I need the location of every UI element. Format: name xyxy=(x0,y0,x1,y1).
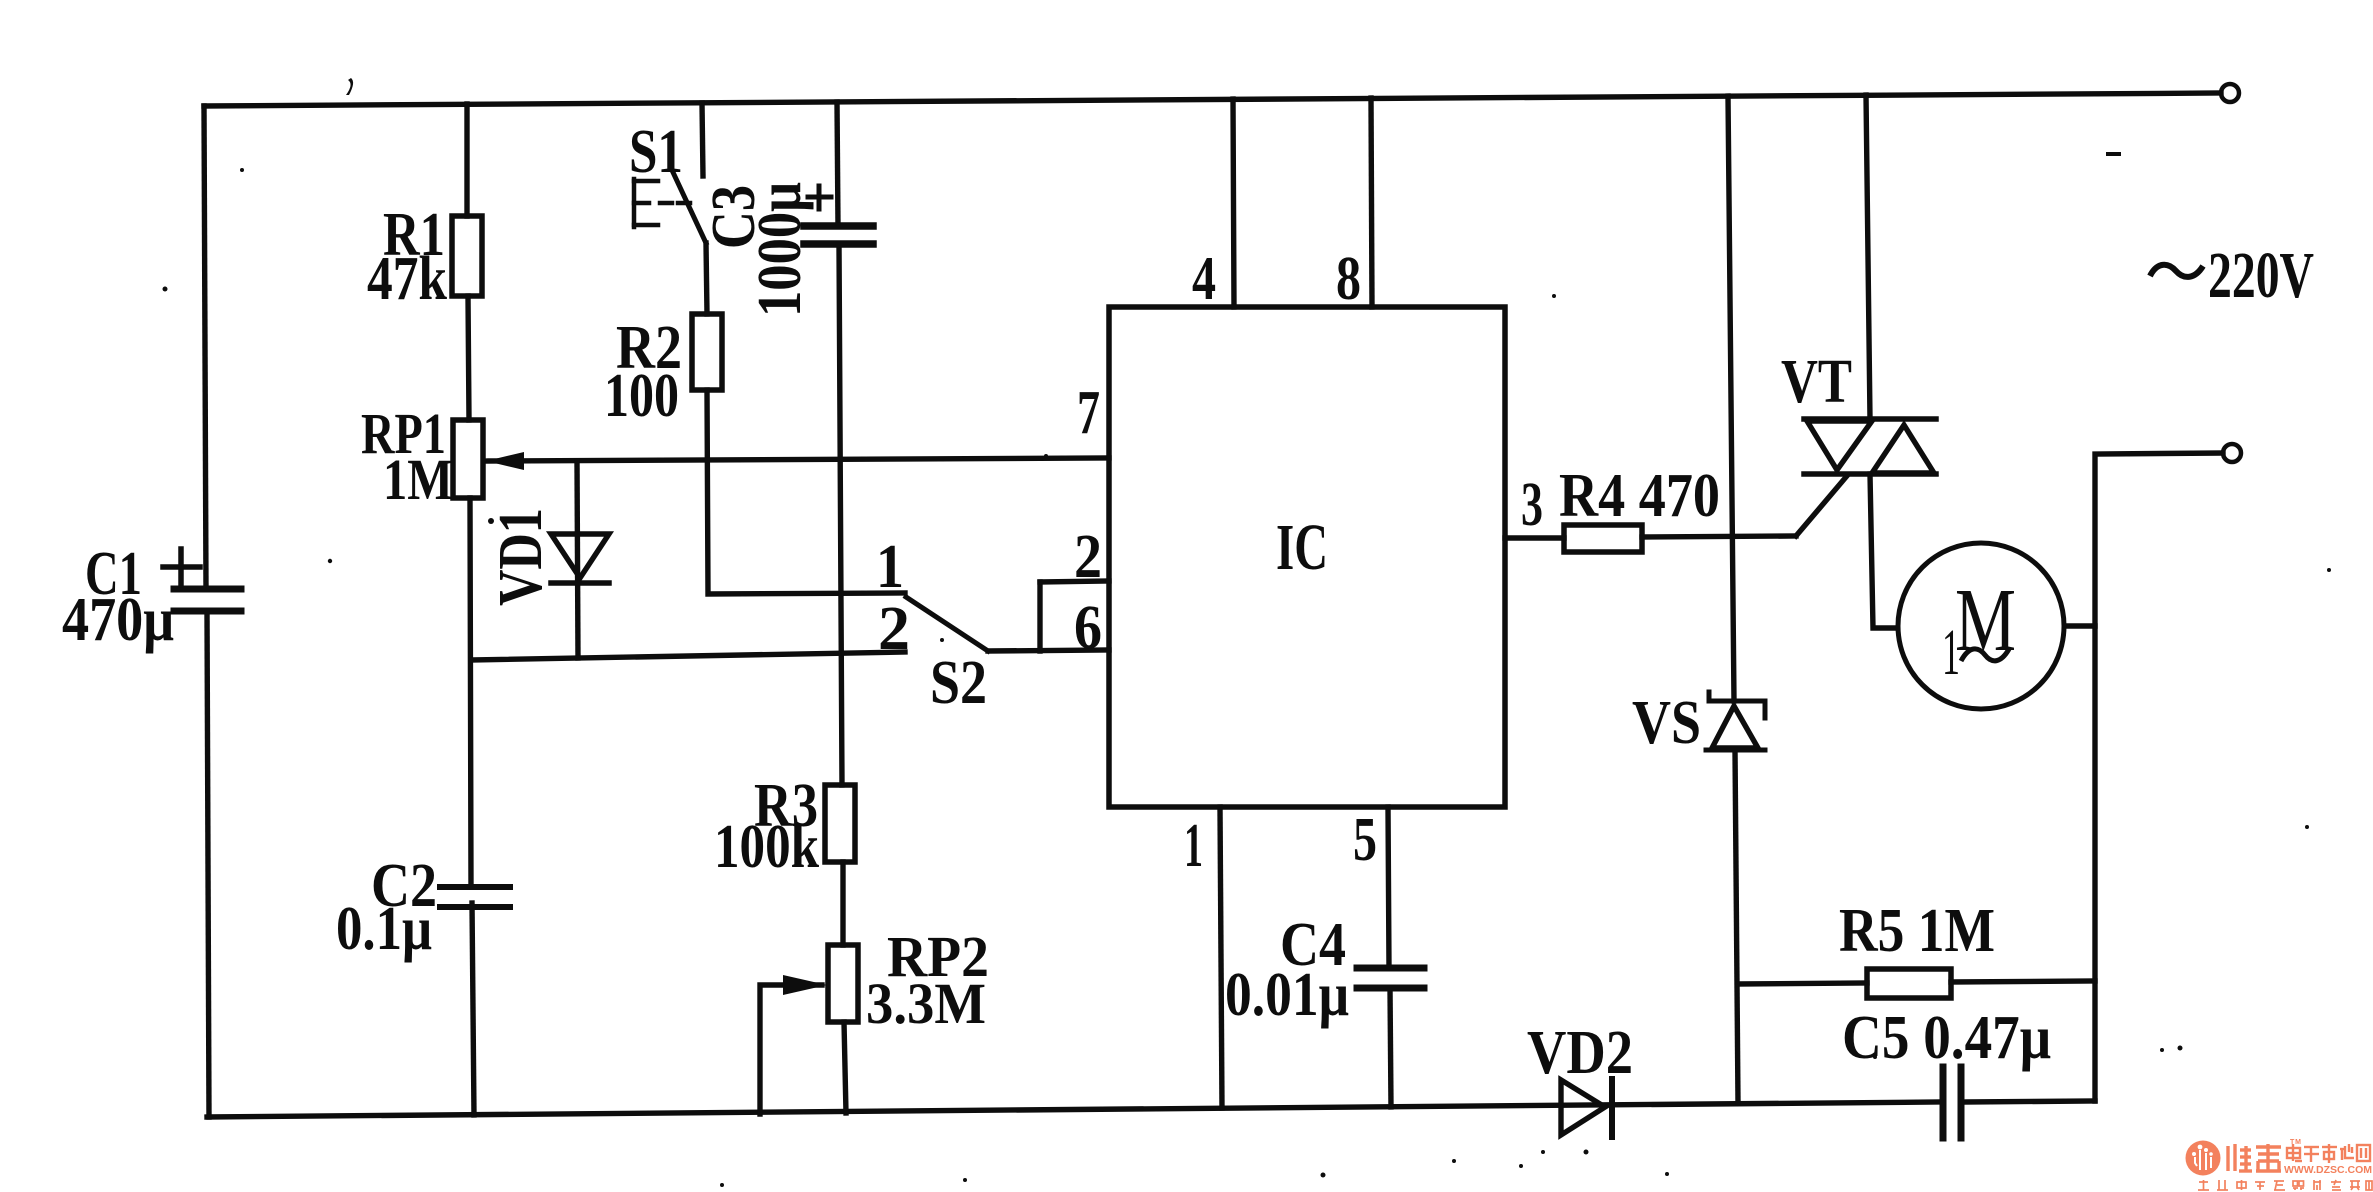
wire top rail xyxy=(204,93,2221,106)
resistor R5 xyxy=(1867,969,1951,998)
watermark logo circle xyxy=(2186,1141,2221,1176)
svg-text:4: 4 xyxy=(1192,245,1216,313)
wire pin5 to C4 xyxy=(1388,807,1389,968)
svg-text:6: 6 xyxy=(1074,594,1102,662)
wire VD1 branch xyxy=(577,461,578,658)
watermark chinese small 电子市场网 xyxy=(2287,1144,2370,1163)
svg-text:R4 470: R4 470 xyxy=(1559,462,1720,530)
wire C2 to bottom rail xyxy=(472,903,474,1115)
wire bottom rail left of C5 xyxy=(207,1102,1939,1117)
wire VS to bottom rail xyxy=(1735,750,1738,1102)
svg-text:7: 7 xyxy=(1077,379,1100,447)
svg-text:100k: 100k xyxy=(714,813,819,881)
op-amp U1 IC box xyxy=(1109,307,1505,807)
capacitor C4 xyxy=(1357,968,1424,988)
wire R5 right xyxy=(1951,981,2095,982)
svg-text:3: 3 xyxy=(1521,471,1543,539)
wire S1 stub from top rail xyxy=(702,103,703,176)
node AC terminal bottom xyxy=(2223,444,2241,462)
potentiometer RP1 xyxy=(453,420,483,498)
svg-text:S2: S2 xyxy=(930,649,987,717)
wire pin8 to top rail xyxy=(1371,98,1372,307)
wire pin7 from RP1 wiper to IC xyxy=(488,458,1109,461)
wire C4 to bottom rail xyxy=(1390,988,1391,1107)
svg-text:TM: TM xyxy=(2290,1139,2301,1146)
capacitor C3 plus sign xyxy=(808,186,831,209)
wire S1 to R2 xyxy=(706,243,707,314)
wire pin3 to R4 xyxy=(1505,535,1564,540)
wire vertical A top to R1 xyxy=(464,104,469,216)
watermark slogan row xyxy=(2198,1180,2372,1190)
node AC terminal top xyxy=(2221,84,2239,102)
node label 220V xyxy=(2150,265,2203,277)
wire C3 down to R3 xyxy=(839,244,842,785)
potentiometer RP1 wiper arrow xyxy=(486,452,524,470)
svg-text:3.3M: 3.3M xyxy=(866,971,986,1036)
potentiometer RP2 wiper arrow xyxy=(783,975,827,995)
svg-text:R5 1M: R5 1M xyxy=(1839,897,1995,965)
svg-text:VD2: VD2 xyxy=(1527,1019,1633,1087)
capacitor C2 xyxy=(440,887,510,907)
watermark chinese main 维库 xyxy=(2228,1144,2281,1171)
resistor R2 xyxy=(692,314,722,390)
switch S2 arm xyxy=(906,597,988,651)
svg-text:WWW.DZSC.COM: WWW.DZSC.COM xyxy=(2284,1165,2372,1176)
wire R4 to gate xyxy=(1642,536,1796,537)
diode VD1 xyxy=(551,534,609,578)
wire vertical C top to VS xyxy=(1728,96,1734,701)
potentiometer RP2 xyxy=(828,945,858,1022)
wire RP2 to bottom rail xyxy=(844,1022,846,1113)
diode VS xyxy=(1712,706,1758,748)
transistor VT triac xyxy=(1804,416,1936,422)
svg-text:1: 1 xyxy=(1942,616,1960,689)
wire motor right stub xyxy=(2065,623,2095,628)
svg-text:470μ: 470μ xyxy=(62,586,174,654)
wire RP2 wiper return xyxy=(760,985,822,1114)
svg-text:1: 1 xyxy=(876,533,904,601)
svg-text:220V: 220V xyxy=(2208,239,2314,312)
wire VT to motor xyxy=(1870,474,1897,628)
wire throw2 line xyxy=(472,652,905,660)
capacitor C1 plus sign xyxy=(163,549,200,585)
svg-text:C5 0.47μ: C5 0.47μ xyxy=(1842,1004,2051,1072)
svg-text:VD1: VD1 xyxy=(487,508,555,606)
wire R1 to RP1 xyxy=(468,296,469,420)
wire R3 to RP2 xyxy=(840,862,845,945)
svg-text:1M: 1M xyxy=(383,447,453,512)
capacitor C3 xyxy=(804,226,873,244)
svg-text:100: 100 xyxy=(604,362,679,430)
capacitor C1 xyxy=(174,589,241,611)
wire triac gate diagonal xyxy=(1796,477,1846,536)
switch S1 arm xyxy=(671,168,706,243)
diode VD2 xyxy=(1561,1080,1605,1135)
wire R2 down to throw1 corner xyxy=(707,390,905,594)
svg-text:2: 2 xyxy=(1074,523,1102,591)
wire pin1 to bottom rail xyxy=(1220,807,1222,1108)
svg-text:1000μ: 1000μ xyxy=(746,182,814,317)
svg-text:S1: S1 xyxy=(629,118,683,186)
wire AC terminal 2 lead xyxy=(2095,453,2223,1101)
capacitor C5 xyxy=(1943,1067,1961,1138)
wire pin2 hook vertical xyxy=(1037,582,1042,651)
svg-text:8: 8 xyxy=(1336,245,1361,313)
wire vertical B top to C3 xyxy=(837,102,838,226)
svg-text:VS: VS xyxy=(1632,689,1701,757)
wire RP1 to C2 xyxy=(470,498,471,886)
svg-text:1: 1 xyxy=(1184,812,1203,880)
wire left rail lower xyxy=(207,612,209,1117)
speckle marks xyxy=(346,78,353,95)
resistor R1 xyxy=(452,216,482,296)
wire S2 common to pin6 xyxy=(988,650,1109,651)
svg-text:IC: IC xyxy=(1276,511,1328,584)
svg-text:5: 5 xyxy=(1353,806,1377,874)
node label M tilde xyxy=(1961,649,2009,661)
wire pin2 stub xyxy=(1040,581,1109,582)
svg-text:2: 2 xyxy=(878,595,910,663)
wire pin4 to top rail xyxy=(1233,99,1234,307)
svg-text:0.01μ: 0.01μ xyxy=(1225,961,1349,1029)
svg-text:0.1μ: 0.1μ xyxy=(336,895,432,963)
switch S1 actuator xyxy=(634,179,690,227)
resistor R3 xyxy=(825,785,855,862)
svg-text:VT: VT xyxy=(1781,348,1852,416)
wire left rail upper xyxy=(204,106,206,589)
wire R5 left xyxy=(1738,983,1867,984)
motor M xyxy=(1898,543,2064,709)
wire bottom rail right of C5 xyxy=(1966,1101,2095,1102)
wire VT anode to top rail xyxy=(1866,95,1870,419)
resistor R4 xyxy=(1564,525,1642,552)
svg-text:47k: 47k xyxy=(367,245,447,313)
